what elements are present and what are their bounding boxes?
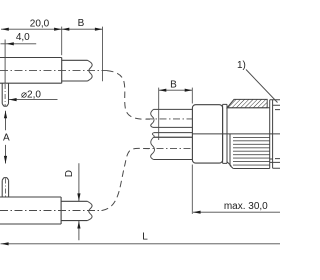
connector P1 pin centerline dashes [4,84,6,106]
dimension B (left view) [62,28,103,30]
dimension dia 2,0 [9,99,58,101]
connector J1 cable 1 (top) [153,109,192,127]
cable 1 break [151,109,154,127]
connector J1 axis line [192,133,280,135]
extension line at cable end [102,27,104,82]
svg-text:1): 1) [237,60,246,71]
svg-text:A: A [3,133,10,144]
connector J1 nut body top line [227,107,270,109]
connector P1 centerline [0,70,107,72]
connector P2 body (bottom-left plug) [0,197,61,224]
connector P1 cable break [88,60,93,81]
connector J1 knurl ribs [233,137,270,165]
cable 2 (thin middle) [154,133,193,138]
connector P1 pin centerline extension [4,40,6,84]
connector J1 nut bottom [233,168,270,170]
svg-text:max. 30,0: max. 30,0 [224,201,268,212]
connector P2 cable break [87,201,92,220]
dimension 20,0 [1,28,62,30]
connector P2 pin [2,178,8,197]
cable 3 break [151,137,155,159]
connector J1 front barrel [270,100,280,169]
cable 3 centerline [143,148,192,150]
connector P2 pin centerline dashes [4,179,6,197]
dimension L [1,243,281,245]
note 1) leader line [246,70,278,103]
cable 3 (bottom) [154,137,193,159]
dimension B (right view) [159,89,193,91]
cable 1 centerline [146,118,192,120]
extension line at body right edge [61,27,63,56]
connector P1 body (top-left right-angle plug) [0,58,62,84]
connector J1 clamp ring [223,104,227,163]
cable curve (bottom plug to connector) [102,148,149,210]
connector P2 cable boot [61,201,87,220]
svg-text:B: B [78,18,85,29]
connector J1 nut left lower step [227,134,233,169]
svg-text:20,0: 20,0 [30,18,50,29]
dimension 4,0 [1,43,37,45]
connector J1 nut right edge [269,100,271,169]
dimension max. 30,0 [191,165,193,214]
connector P2 centerline [0,210,102,212]
svg-text:B: B [170,79,177,90]
svg-text:⌀2,0: ⌀2,0 [21,89,41,100]
svg-text:L: L [142,231,148,242]
dimension A [5,111,7,164]
connector J1 strain-relief boot [192,105,222,163]
B extension line right [191,88,193,104]
connector P1 cable boot [62,60,88,81]
connector J1 knurled nut hatch (cut upper rim) [227,99,267,107]
B extension line left [158,88,160,140]
svg-text:4,0: 4,0 [16,32,30,43]
connector P1 pin [2,83,8,106]
cable curve (top plug to connector) [107,71,150,120]
cable 2 break [152,133,154,138]
svg-text:D: D [64,170,75,177]
